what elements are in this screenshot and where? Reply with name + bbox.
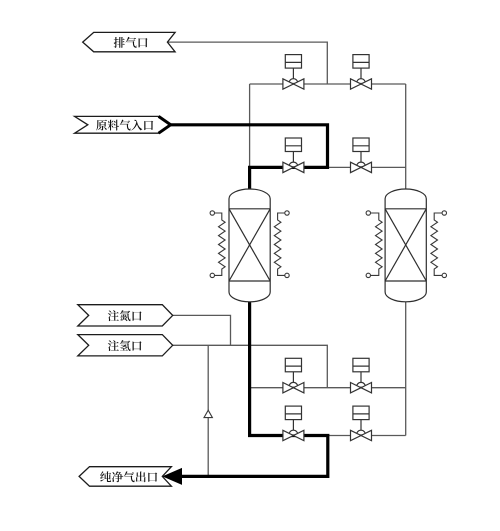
electric heater coil right of vessel A with terminal circles — [274, 211, 289, 278]
exhaust port banner (left-pointing flag) — [83, 32, 175, 51]
wire: row 4 header right section — [327, 435, 405, 437]
wire: left riser row1-row2 — [249, 84, 251, 167]
valve V7 row4-left: actuator box, stem and gate-valve bowtie — [283, 406, 304, 441]
wire: exhaust line from vent banner down to valve row 1 — [167, 42, 327, 84]
solid flow arrowhead at pure gas outlet — [162, 468, 182, 485]
open flow-direction arrow on purge line — [204, 410, 212, 417]
wire: right riser row1 to vessel B top — [405, 84, 407, 195]
label: 注氮口 (nitrogen injection port) — [108, 310, 142, 321]
label: 原料气入口 (feed gas inlet) — [96, 120, 153, 131]
valve V3 row2-left: actuator box, stem and gate-valve bowtie — [283, 138, 304, 173]
label: 注氢口 (hydrogen injection port) — [108, 340, 142, 351]
valve V6 row3-right: actuator box, stem and gate-valve bowtie — [351, 358, 372, 393]
valve V5 row3-left: actuator box, stem and gate-valve bowtie — [283, 358, 304, 393]
electric heater coil left of vessel A with terminal circles — [210, 211, 225, 278]
wire: row 2 header right section — [327, 166, 405, 168]
valve V1 row1-left: actuator box, stem and gate-valve bowtie — [283, 55, 304, 90]
wire: valve row 3 header — [250, 387, 406, 389]
wire: nitrogen injection line joining second line — [173, 315, 231, 345]
valve V2 row1-right: actuator box, stem and gate-valve bowtie — [351, 55, 372, 90]
wire: valve row 1 header — [250, 83, 406, 85]
wire: purge line down to product header — [207, 345, 209, 476]
pure gas outlet banner (left-pointing flag) — [79, 467, 171, 487]
bold wire: feed gas from inlet banner, down riser, row-2 left run, into vessel A top — [171, 125, 328, 196]
adsorber vessel A (left adsorber): shell with dished heads, packing section and cross bracing — [229, 189, 270, 302]
valve V4 row2-right: actuator box, stem and gate-valve bowtie — [351, 138, 372, 173]
label: 排气口 (exhaust port) — [114, 37, 148, 48]
wire: hydrogen injection line over to riser and down to row 3 — [173, 345, 328, 387]
adsorber vessel B (right adsorber): shell with dished heads, packing section and cross bracing — [385, 189, 426, 302]
electric heater coil right of vessel B with terminal circles — [431, 211, 447, 278]
electric heater coil left of vessel B with terminal circles — [366, 211, 382, 278]
label: 纯净气出口 (pure gas outlet) — [100, 471, 157, 482]
valve V8 row4-right: actuator box, stem and gate-valve bowtie — [351, 406, 372, 441]
feed gas inlet banner (right-pointing flag with bold tip) — [75, 116, 171, 133]
bold wire: product from vessel A bottom along row 4 down to pure-gas outlet — [181, 295, 328, 476]
nitrogen injection port banner — [78, 305, 173, 326]
hydrogen injection port banner — [78, 335, 173, 356]
wire: vessel B bottom pipe down to row 4 — [405, 296, 407, 436]
